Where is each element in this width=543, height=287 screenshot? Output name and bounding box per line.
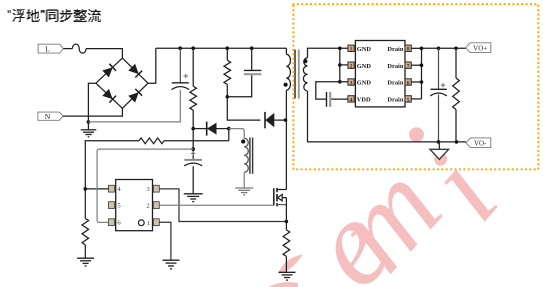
node C2-pin6 junction — [191, 147, 195, 151]
wire R2 to snubber node — [226, 84, 228, 96]
auxiliary winding L1 — [244, 138, 248, 172]
node R1-D5 junction — [191, 127, 195, 131]
node secondary polarity dot — [303, 59, 307, 63]
resistor R1 — [190, 86, 197, 110]
wire snubber node to clamp diode — [227, 97, 260, 120]
output resistor R7 — [455, 48, 457, 78]
wire pin5 stub — [411, 98, 421, 100]
node drainbus-7 — [420, 63, 424, 67]
node primary polarity dot — [284, 83, 288, 87]
output terminal flag VO+ — [466, 43, 491, 53]
transformer T1 primary winding — [286, 54, 290, 90]
svg-text:1: 1 — [350, 47, 353, 53]
wire pin6 stub — [411, 81, 421, 83]
wire R5 to ground — [285, 256, 287, 272]
transformer core bar 1 — [294, 50, 296, 99]
VDD capacitor C4 — [326, 92, 328, 107]
title text "浮地"同步整流 (drawn as pixel runs) — [8, 9, 101, 22]
node pin4 junction — [84, 187, 88, 191]
wire rail to C3 — [251, 48, 253, 70]
wire R1 to C2 — [192, 110, 194, 159]
svg-text:N: N — [45, 112, 51, 121]
svg-text:GND: GND — [357, 63, 372, 70]
node rail-C1 — [178, 46, 182, 50]
node drainbus-8 — [420, 47, 424, 51]
wire aux node to feedback divider — [228, 129, 230, 141]
MOSFET Q1 gate bar — [273, 188, 275, 205]
wire C2 to ground — [192, 166, 194, 194]
svg-text:VO-: VO- — [474, 140, 487, 148]
ground (C2) — [184, 193, 203, 195]
svg-text:4: 4 — [350, 97, 353, 103]
node rail-R1 — [191, 46, 195, 50]
U1 pin boxes — [348, 45, 354, 51]
dashed enclosure (secondary module boundary) — [293, 4, 538, 169]
node drainbus-6 — [420, 80, 424, 84]
bridge diode D1 (left-top edge, cathode to top) — [102, 67, 112, 77]
feedback resistor R6 (horizontal) — [139, 138, 164, 144]
controller IC U2 body — [116, 180, 153, 231]
MOSFET Q1 drain connection — [277, 189, 286, 191]
wire bridge right vertex to HV+ rail — [148, 48, 156, 83]
wire divider top — [164, 140, 229, 142]
svg-text:5: 5 — [407, 97, 410, 103]
wire N to bridge bottom — [63, 108, 122, 116]
ground (R5) — [279, 271, 296, 273]
node VO+ R7 — [454, 47, 458, 51]
wire aux winding to ground (grey) — [243, 172, 245, 188]
svg-text:2: 2 — [146, 203, 149, 210]
clamp diode D6 (cathode left) — [264, 112, 266, 128]
wire pin8 stub — [411, 47, 421, 49]
wire L to fuse — [63, 48, 72, 50]
wire secondary bottom to VO- rail — [308, 91, 466, 142]
wire HV+ top rail — [156, 47, 287, 49]
node aux junction — [227, 127, 231, 131]
node source junction — [285, 220, 289, 224]
wire C4 to pin4 (VDD) — [331, 98, 348, 100]
wire source node to R5 — [285, 222, 287, 230]
node D6-drain junction — [284, 118, 288, 122]
wire drain bus to VO+ — [422, 47, 466, 49]
svg-text:VO+: VO+ — [473, 44, 487, 52]
sync-rectifier IC U1 body — [355, 41, 405, 107]
wire pin6 to C2 node (grey) — [97, 149, 193, 222]
MOSFET Q1 source connection — [277, 204, 286, 206]
ground (aux winding, grey) — [235, 187, 253, 189]
input terminal flag N — [38, 112, 63, 120]
svg-text:L: L — [45, 44, 50, 53]
ground (R4) — [77, 257, 94, 259]
bulk capacitor C1 (polarized) — [179, 48, 181, 83]
wire bus to pin3 and VDD branch — [316, 82, 348, 99]
wire divider to R4 — [85, 141, 139, 219]
wire R4 to ground — [84, 245, 86, 258]
node bus-pin3 — [338, 80, 342, 84]
wire pin7 stub — [411, 64, 421, 66]
svg-text:GND: GND — [357, 46, 372, 53]
earth ground (bridge minus) — [81, 129, 97, 131]
resistor R4 — [82, 218, 89, 245]
svg-text:7: 7 — [407, 64, 410, 70]
bridge diode D4 (bottom-right edge, cathode to right) — [128, 92, 138, 102]
svg-text:GND: GND — [357, 80, 372, 87]
input terminal flag L — [38, 44, 63, 53]
svg-text:Drain: Drain — [387, 46, 403, 53]
svg-text:VDD: VDD — [357, 97, 371, 104]
wire pin1 to ground — [159, 222, 171, 260]
VCC diode D5 (cathode left) — [206, 122, 208, 136]
sense resistor R5 — [283, 230, 290, 257]
svg-text:Drain: Drain — [387, 63, 403, 70]
svg-text:3: 3 — [350, 80, 353, 86]
wire bridge left vertex to primary ground node — [88, 83, 96, 130]
wire bus to pin2 — [340, 64, 348, 66]
svg-text:Drain: Drain — [387, 80, 403, 87]
node VO- C5 — [437, 140, 441, 144]
wire pin4 to divider node — [85, 188, 108, 190]
node rail-C3 — [250, 46, 254, 50]
wire primary return (grey) — [88, 90, 180, 122]
svg-text:2: 2 — [350, 64, 353, 70]
wire R1 node to D5 — [193, 128, 207, 130]
snubber resistor R2 — [224, 60, 231, 84]
ground (pin1) — [163, 259, 180, 261]
wire aux node to aux winding (grey) — [229, 129, 244, 139]
svg-text:8: 8 — [407, 47, 410, 53]
wire D5 to aux node — [217, 128, 229, 130]
transformer T1 secondary winding — [303, 58, 307, 91]
bridge diode D3 (left-bottom edge, cathode to bottom) — [102, 89, 112, 99]
node rail-R2 — [226, 46, 230, 50]
wire source down — [285, 198, 287, 222]
capacitor C2 (polarized) — [191, 151, 195, 155]
wire drain to primary — [285, 90, 287, 189]
watermark (pink diagonal letters, under circuit) — [281, 129, 523, 287]
fuse F1 (S-curve) — [72, 44, 86, 53]
node VO- R7 — [455, 140, 459, 144]
MOSFET Q1 body arrow — [278, 194, 283, 200]
U2 pin-1 indicator circle — [138, 220, 144, 226]
snubber capacitor C3 — [244, 69, 262, 71]
output capacitor C5 (polarized) — [438, 48, 440, 89]
wire secondary top to pin1 — [308, 48, 348, 57]
wire pin2 to gate (grey) — [159, 204, 273, 206]
node primary-return junction — [87, 120, 91, 124]
transformer core bar 2 — [298, 50, 300, 99]
bridge diode D2 (top-right edge, cathode to right) — [128, 64, 138, 74]
bridge rectifier diamond wires — [96, 58, 123, 83]
node bus-pin1 — [338, 47, 342, 51]
output terminal flag VO- — [466, 138, 491, 148]
wire D6 to primary bottom — [274, 119, 286, 121]
node bus-pin2 — [338, 63, 342, 67]
wire rail to R2 — [226, 48, 228, 60]
wire pin3 to MOSFET source (sense) — [159, 189, 286, 222]
aux core bar 1 — [249, 138, 251, 174]
aux core bar 2 — [252, 138, 254, 174]
U2 pin pads — [109, 185, 115, 192]
node aux winding polarity dot — [241, 139, 245, 143]
svg-text:6: 6 — [407, 80, 410, 86]
node snubber junction — [226, 95, 230, 99]
MOSFET Q1 channel segments — [276, 188, 278, 192]
svg-text:Drain: Drain — [387, 97, 403, 104]
node VO+ C5 — [437, 47, 441, 51]
wire C3 to snubber node — [227, 75, 251, 97]
wire drain bus vertical — [421, 48, 423, 99]
wire rail to R1 — [192, 48, 194, 86]
floating ground triangle — [438, 142, 440, 149]
wire GND bus vertical — [339, 48, 341, 82]
wire rail corner to primary top — [285, 48, 287, 54]
svg-text:1: 1 — [147, 220, 150, 227]
wire fuse to bridge top — [86, 49, 122, 59]
